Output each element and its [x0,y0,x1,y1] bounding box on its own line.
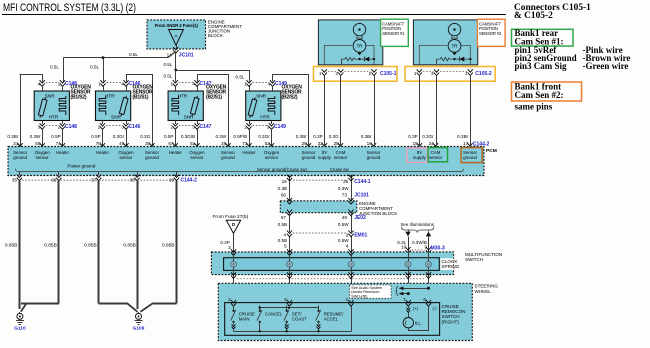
svg-text:Heater: Heater [242,150,256,155]
arrow audio remocon lower [403,293,409,295]
svg-text:0.5P: 0.5P [51,134,60,139]
ground G110 [19,312,21,314]
svg-text:HTR: HTR [178,94,188,100]
svg-text:sensor: sensor [334,155,348,160]
wire 0.85B pin39 to G109 [176,181,178,304]
svg-text:0.3Br: 0.3Br [7,134,18,139]
connector C105-2 [405,67,495,82]
svg-text:ILL.: ILL. [415,320,422,325]
svg-text:0.3G/B: 0.3G/B [181,134,195,139]
svg-text:HTR: HTR [49,115,59,121]
switch CRUISE MAIN [233,306,235,311]
svg-text:ground: ground [463,155,477,160]
wire fuse D to multifunction switch [233,233,235,252]
oxygen sensor B1/S2 [34,91,69,121]
wire sensor1 pin1 to PCM 32 [324,75,326,147]
wire O2 B1/S2 top stubs [42,86,44,91]
svg-text:WHEEL: WHEEL [475,289,492,294]
title underline [2,14,506,16]
wire drop to O2 B2/S1 pin1 [175,70,177,82]
wire sensor1 resistor to pin3 [341,59,343,65]
node sensor2 TR base [453,51,457,55]
cruise remocon switch box [225,303,440,336]
svg-text:PCM: PCM [486,148,497,154]
PCM ground pin 35 [19,172,21,176]
svg-text:0.3Gr: 0.3Gr [258,134,270,139]
see audio system box [350,285,392,298]
svg-text:0.85B: 0.85B [123,242,136,248]
wire clock spring col 5 [289,252,291,283]
svg-text:ground: ground [302,155,316,160]
clock spring contact [287,261,293,267]
svg-text:25: 25 [343,179,349,184]
oxygen sensor B2/S1 [168,91,203,121]
arrow illumination out [405,232,410,237]
wire B1/S1 pin3 to PCM 49 [126,129,128,147]
wire B2/S1 pin3 to PCM 51 [197,129,199,147]
junction block JB2 engine compartment [280,201,357,213]
wire bottom bus to pin1 [351,306,353,332]
svg-text:Heater: Heater [56,150,70,155]
svg-text:(B1/S2): (B1/S2) [71,95,87,101]
PCM ground pin 38 [137,172,139,176]
svg-text:supply: supply [413,155,426,160]
svg-text:35: 35 [12,177,18,182]
svg-text:ACCEL: ACCEL [324,317,339,322]
svg-text:ground: ground [221,155,235,160]
svg-text:SNR: SNR [111,115,121,121]
multifunction top pin col 3 [231,249,236,255]
node bus junction [174,69,177,72]
svg-text:1: 1 [346,297,349,302]
svg-text:Sensor ground(Cruise sw): Sensor ground(Cruise sw) [257,167,307,172]
wire sensor2 internal left to pin1 [419,45,447,64]
svg-text:supply: supply [318,155,331,160]
svg-text:5: 5 [284,244,287,249]
clock spring contact [231,261,237,267]
svg-text:66: 66 [281,192,287,197]
wire bus right to oxygen sensors 3-4 [176,70,249,72]
wire B2/S2 pin3 to PCM 52 [271,129,273,147]
svg-text:0.3Br: 0.3Br [361,134,372,139]
svg-text:G110: G110 [14,325,26,331]
switch CANCEL [259,306,261,311]
svg-text:TR: TR [452,44,458,49]
svg-text:Cam Sen #2:: Cam Sen #2: [515,90,564,100]
clock spring bar [224,258,440,271]
svg-text:73: 73 [342,192,348,197]
wire EM01 to multifunction switch [289,237,291,252]
wire B1/S1 pin2 to PCM 70 [102,129,104,147]
clock spring pin out [405,272,410,278]
wire clock spring col 10 [408,252,410,283]
label camshaft position sensor #1 [381,19,409,46]
svg-text:0.5L: 0.5L [236,75,245,80]
PCM highlight CAM sensor green [428,148,447,162]
svg-text:0.85B: 0.85B [84,242,97,248]
wire drop to O2 B1/S1 pin1 [103,58,105,82]
svg-text:0.3P: 0.3P [220,240,229,245]
wire B1/S2 pin3 to PCM 50 [42,129,44,147]
wire clock spring col 3 [233,252,235,283]
wire B1/S2 pin4 to PCM 31 [42,74,44,82]
svg-text:SNR: SNR [256,94,266,100]
PCM ground pin 36 [58,172,60,176]
svg-text:C144-1: C144-1 [354,179,371,185]
clock spring pin out [287,272,292,278]
node sensor2 right [469,58,471,60]
svg-text:(B1/S1): (B1/S1) [133,95,149,101]
svg-text:M30-3: M30-3 [431,246,445,252]
switch RESUME/ ACCEL [318,306,320,311]
connector C105-1 [314,67,398,82]
svg-text:0.5L: 0.5L [90,64,99,69]
wire JE02 57 49 [289,213,291,232]
wire sensor1 internal left to pin1 [324,45,352,64]
svg-text:CANCEL: CANCEL [265,311,283,316]
connector M30-3 row [405,247,410,253]
svg-text:0.3P: 0.3P [313,134,322,139]
svg-text:(RIGHT): (RIGHT) [442,319,460,324]
wire sensor1 pin2 to PCM 18 [374,75,376,147]
svg-text:C146: C146 [129,81,141,87]
label clock spring [440,258,453,270]
wire pin7 to ILL lamp [408,306,410,309]
resistor sensor1 [341,57,374,60]
wire switch bottom bus [234,331,352,333]
svg-text:0.3W: 0.3W [215,134,226,139]
svg-text:JE02: JE02 [354,215,366,221]
svg-text:A: A [174,34,177,39]
svg-text:1: 1 [319,71,322,76]
wire B2/S2 pin4 to PCM 29 [272,74,274,82]
svg-text:ground: ground [13,155,27,160]
svg-text:3: 3 [284,297,287,302]
node sensor2 center [453,58,455,60]
wire PCM 25 to junction block [351,176,353,201]
svg-text:(-): (-) [433,306,438,311]
svg-text:ground: ground [145,155,159,160]
clock spring pin out [231,272,236,278]
svg-text:C144-2: C144-2 [181,178,198,184]
svg-text:0.3W: 0.3W [338,186,349,191]
wire sensor2 resistor to pin3 [436,59,438,65]
svg-text:& C105-2: & C105-2 [514,11,553,21]
svg-text:0.5L: 0.5L [50,64,59,69]
node bus B1S1 [102,56,105,59]
label camshaft position sensor #2 [477,19,505,46]
svg-text:2: 2 [228,297,231,302]
svg-text:Heater: Heater [169,150,183,155]
svg-text:0.3Br: 0.3Br [457,134,468,139]
svg-text:0.5P/B: 0.5P/B [233,134,247,139]
svg-text:0.3Br: 0.3Br [296,134,307,139]
brace illuminations [402,227,434,233]
svg-text:SPRING: SPRING [441,264,459,269]
oxygen sensor B2/S2 [246,91,281,121]
connector C144-2 bottom row [22,179,174,181]
svg-text:C105-1: C105-1 [380,71,397,77]
svg-text:same pins: same pins [515,101,553,111]
wire drop to O2 B1/S2 pin1 [63,58,65,82]
wire clock spring col 4 [351,252,353,283]
PCM ground pin 39 [176,172,178,176]
svg-text:6: 6 [423,297,426,302]
svg-text:2: 2 [369,71,372,76]
diode sensor2 [459,57,464,62]
junction block JB1 From SNSR 2 Fuse(1) [147,20,206,49]
clock spring pin out [348,272,353,278]
svg-text:sensor: sensor [265,155,279,160]
svg-text:0.3G: 0.3G [140,134,150,139]
svg-text:(B2/S2): (B2/S2) [282,95,298,101]
svg-text:Power ground: Power ground [67,163,96,168]
svg-text:SENSOR #1: SENSOR #1 [382,31,405,36]
wire 0.85B pin38 to G109 [137,181,139,309]
wire B2/S2 pin2 to PCM 73 [249,129,251,147]
svg-text:C148: C148 [65,81,77,87]
svg-text:3: 3 [335,71,338,76]
transistor TR sensor #2 [448,40,461,53]
svg-text:From Fuse 27(5): From Fuse 27(5) [213,214,249,220]
PCM [8,147,484,176]
wire O2 B2/S1 stubs [175,86,177,91]
svg-text:(B2/S1): (B2/S1) [206,95,222,101]
svg-text:0.85B: 0.85B [44,242,57,248]
svg-text:0.5L: 0.5L [163,62,172,67]
svg-text:C148: C148 [65,124,77,130]
svg-text:(+): (+) [413,306,419,311]
wire sensor2 pin2 to PCM 17 [470,75,472,147]
svg-text:0.5P: 0.5P [91,134,100,139]
resistor sensor2 [436,57,470,60]
svg-text:sensor: sensor [119,155,133,160]
svg-text:0.5W: 0.5W [338,238,349,243]
svg-text:0.5L: 0.5L [129,52,138,57]
connector EM01 row [287,231,292,237]
svg-text:BLOCK: BLOCK [208,33,223,38]
svg-text:C146: C146 [129,124,141,130]
wire B1/S1 pin4 to PCM 30 [126,74,128,82]
node sensor1 TR base [358,51,362,55]
svg-text:C147: C147 [200,81,212,87]
svg-text:Heater: Heater [96,150,110,155]
wire sensor1 internal right to pin2 [366,45,374,64]
multifunction switch box [211,252,453,275]
brace audio remocon [396,286,398,295]
svg-text:0.5L: 0.5L [163,74,172,79]
svg-text:1: 1 [414,71,417,76]
svg-text:57: 57 [281,215,287,220]
node sensor1 right [373,58,375,60]
clock spring contact [348,261,354,267]
svg-text:TR: TR [357,44,363,49]
svg-text:SWITCH: SWITCH [465,257,483,262]
wire pin3 to switch bus [289,306,291,308]
wire clock spring col 9 [428,252,430,283]
svg-text:3: 3 [431,71,434,76]
svg-text:MFI CONTROL SYSTEM (3.3L) (2): MFI CONTROL SYSTEM (3.3L) (2) [3,2,136,14]
connector row below clock spring [237,278,424,280]
multifunction top pin col 5 [287,249,292,255]
wire PCM 16 to junction block [289,176,291,201]
clock spring contact [405,261,411,267]
wire drop to O2 B2/S2 pin1 [249,70,251,82]
svg-text:2: 2 [346,232,349,237]
fuse symbol D [226,220,240,233]
svg-text:0.5W: 0.5W [338,222,349,227]
fuse symbol A [169,30,184,46]
svg-text:MAIN: MAIN [239,317,250,322]
svg-text:C105-2: C105-2 [475,71,492,77]
wire B1/S2 pin2 to PCM 74 [62,129,64,147]
svg-text:2: 2 [465,71,468,76]
camshaft position sensor #1 [318,20,382,65]
svg-text:COAST: COAST [292,317,307,322]
svg-text:7: 7 [403,297,406,302]
svg-text:0.85B: 0.85B [5,242,18,248]
switch SET/ COAST [286,306,288,311]
wire O2 B2/S2 stubs [249,86,251,91]
pin 14 JC101 [176,45,178,48]
arrow audio remocon upper [403,288,429,290]
svg-text:SW(Left)): SW(Left)) [351,294,368,298]
svg-text:3: 3 [228,245,231,250]
svg-text:0.5B: 0.5B [278,222,287,227]
wire O2 B1/S1 stubs [103,86,105,91]
clock spring contact [426,261,432,267]
svg-text:ground: ground [367,155,381,160]
camshaft position sensor #2 [413,20,477,65]
svg-text:See Illuminations: See Illuminations [401,222,435,227]
svg-text:0.85B: 0.85B [162,242,175,248]
svg-text:16: 16 [282,179,288,184]
lamp ILL [403,318,413,328]
svg-text:0.3Gr: 0.3Gr [113,134,125,139]
PCM ground pin 37 [98,172,100,176]
wire sensor1 pin3 to PCM 25 [340,75,342,147]
svg-text:C147: C147 [200,124,212,130]
ground G109 [138,312,140,314]
PCM highlight 5V supply pink [407,148,427,162]
svg-text:HTR: HTR [105,94,115,100]
svg-text:JC101: JC101 [354,192,369,198]
svg-text:Cruise sw: Cruise sw [330,167,350,172]
wire 0.85B pin35 to G110 [19,181,21,309]
wire sensor2 pin1 to PCM 15 [419,75,421,147]
svg-text:SNR: SNR [45,94,55,100]
hall element sensor #2 [448,23,460,35]
wire 0.5L bus from JC101 [175,53,177,71]
node sensor1 center [358,58,360,60]
wire sensor2 pin3 to PCM 24 [436,75,438,147]
diode sensor1 [364,57,369,62]
svg-text:pin3 Cam Sig: pin3 Cam Sig [515,61,568,71]
svg-text:0.3P: 0.3P [408,134,417,139]
svg-text:sensor: sensor [36,155,50,160]
svg-text:JC101: JC101 [179,52,194,58]
svg-text:4: 4 [283,232,286,237]
svg-text:sensor: sensor [190,155,204,160]
svg-text:0.3W: 0.3W [30,134,41,139]
wire B2/S1 pin2 to PCM 67 [175,129,177,147]
svg-text:C149: C149 [275,81,287,87]
svg-text:C149: C149 [274,124,286,130]
annotation bank1 rear box [512,29,574,46]
annotation bank1 front box [512,82,582,101]
svg-text:0.5P: 0.5P [164,134,173,139]
multifunction top pin col 4 [348,249,353,255]
svg-text:G109: G109 [133,325,145,331]
arrow illumination in [426,232,431,237]
wire 0.85B pin36 to G110 [58,181,60,304]
hall element sensor #1 [353,23,365,35]
svg-text:sensor: sensor [429,155,443,160]
svg-text:0.3G: 0.3G [329,134,339,139]
svg-text:0.3Gr: 0.3Gr [422,134,434,139]
connector C144-1 row [287,175,292,181]
svg-text:-Green wire: -Green wire [583,61,629,71]
wire B2/S1 pin4 to PCM 28 [197,74,199,82]
transistor TR sensor #1 [353,40,366,53]
svg-text:EM01: EM01 [354,232,367,238]
svg-text:0.3B: 0.3B [278,186,287,191]
svg-text:0.5B: 0.5B [278,238,287,243]
svg-text:4: 4 [346,244,349,249]
wire 0.85B pin37 to G109 [98,181,100,304]
wire 0.3W/B pin9 [428,236,430,252]
wire bus upper left to oxygen sensors 1-2 [64,57,168,59]
wire switch top bus [260,307,319,309]
wire ILL lamp to pin6 [408,328,410,331]
PCM highlight Sensor ground orange [461,148,482,163]
oxygen sensor B1/S1 [96,91,131,121]
svg-text:SENSOR #2: SENSOR #2 [479,31,502,36]
svg-text:HTR: HTR [260,115,270,121]
clock spring pin out [426,272,431,278]
steering wheel box [218,283,472,340]
wire 0.3L pin10 [408,236,410,252]
svg-text:49: 49 [342,215,348,220]
svg-text:From SNSR 2 Fuse(1): From SNSR 2 Fuse(1) [155,23,199,28]
wire sensor2 internal right to pin2 [461,45,470,64]
